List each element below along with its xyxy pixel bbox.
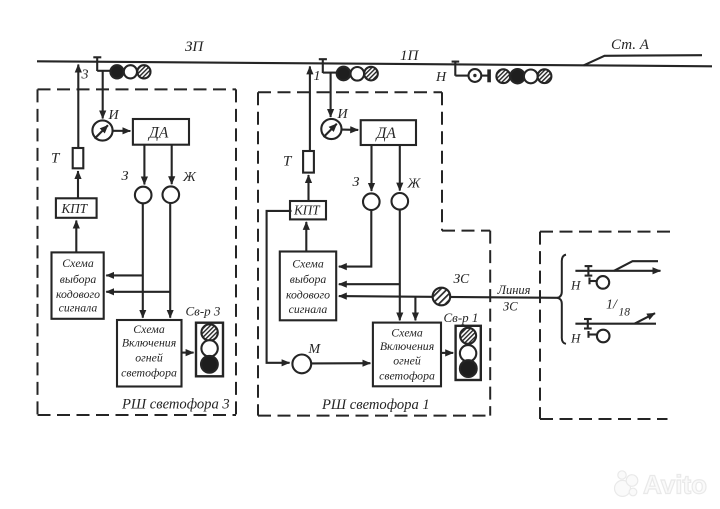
signal Н track 2: tick, link, lamp: [589, 330, 610, 343]
wire: arrow up from T line to track at signal 1: [309, 66, 311, 151]
node 1П label: [400, 48, 420, 64]
svg-text:Т: Т: [283, 154, 293, 170]
svg-text:кодового: кодового: [56, 287, 100, 301]
svg-text:КПТ: КПТ: [293, 203, 321, 218]
node label И: [108, 108, 120, 123]
node label Н (track 1): [570, 278, 581, 293]
dashed cabinet box РШ светофора 1: [258, 92, 490, 415]
node label Т: [51, 151, 61, 167]
relay З: [363, 193, 380, 210]
signal Н mast on track: [452, 61, 469, 76]
светофор 1 lamp white: [460, 345, 476, 361]
svg-text:огней: огней: [135, 351, 163, 365]
светофор 1 head box: [456, 326, 481, 380]
svg-text:18: 18: [619, 307, 631, 319]
signal 3 mast: [93, 57, 110, 71]
signal Н track 1: tick, link, lamp: [590, 276, 610, 289]
signal Н lamp black: [510, 69, 524, 83]
wire: signal 3 mast down to instrument И: [102, 71, 104, 119]
svg-text:Ж: Ж: [182, 170, 197, 185]
node label З: [122, 169, 129, 184]
signal Н lamp hatched 1: [496, 69, 510, 83]
node label З: [353, 175, 360, 190]
wire: lights box to светофор 1 head: [441, 352, 453, 354]
box: схема выбора кодового сигнала (3): [52, 252, 104, 318]
wire: relay З into choose box: [339, 210, 372, 267]
svg-text:Н: Н: [570, 331, 581, 346]
signal Н lamp white: [524, 70, 538, 84]
wire: relay З down into lights box: [142, 203, 144, 317]
wire: station track 2: [575, 323, 656, 325]
relay Ж: [163, 186, 180, 203]
svg-text:ЗС: ЗС: [454, 271, 471, 286]
relay Ж: [392, 193, 409, 210]
wire: ЗС line into choose box: [339, 296, 558, 298]
node label Н (entrance signal): [435, 70, 447, 85]
dashed cabinet box РШ светофора 3: [38, 89, 237, 415]
svg-text:сигнала: сигнала: [289, 302, 328, 316]
svg-text:1: 1: [314, 69, 321, 84]
relay М: [292, 355, 311, 374]
wire: station track 1: [575, 270, 660, 272]
wire: branch З into choose box: [106, 274, 143, 276]
svg-text:Схема: Схема: [292, 257, 324, 271]
station track 1 mast: [585, 265, 593, 276]
signal Н route indicator circle with dot: [469, 69, 482, 82]
box КПТ (code transmitter): [290, 201, 326, 219]
wire: КПТ up to resistor Т: [307, 175, 309, 201]
box: схема выбора кодового сигнала (1): [280, 252, 336, 321]
node label 1/18 turnout: [606, 298, 630, 319]
node Ст. А label: [611, 37, 650, 53]
node label М: [308, 342, 322, 357]
decoder box ДА U1: [133, 119, 189, 145]
wire: branch Ж into choose box: [106, 291, 170, 293]
svg-text:З: З: [353, 175, 360, 190]
signal 3 lamp hatched: [137, 65, 150, 78]
signal 3 lamp white: [124, 65, 137, 78]
svg-text:Включения: Включения: [380, 339, 434, 353]
svg-text:Т: Т: [51, 151, 61, 167]
wire: relay Ж down into lights box: [399, 210, 401, 321]
svg-text:Св-р 3: Св-р 3: [186, 304, 221, 319]
svg-text:М: М: [308, 342, 322, 357]
instrument И (signal 1): [321, 119, 341, 139]
wire: И to ДА arrow: [113, 130, 131, 132]
светофор 1 lamp hatched: [460, 328, 476, 344]
svg-text:Схема: Схема: [62, 256, 94, 270]
node label РШ светофора 1: [321, 397, 430, 413]
signal Н stage bar: [487, 69, 491, 82]
box: схема включения огней светофора (1): [373, 323, 441, 387]
wire: М to lights box: [311, 362, 370, 364]
decoder box ДА U2: [361, 120, 416, 145]
svg-text:З: З: [122, 169, 129, 184]
signal 1 mast: [319, 59, 337, 74]
svg-text:выбора: выбора: [60, 272, 97, 286]
svg-text:И: И: [108, 108, 120, 123]
svg-text:1/: 1/: [606, 298, 618, 313]
signal 1 lamp white: [351, 67, 365, 81]
node label ЗС: [454, 271, 471, 286]
светофор 3 lamp black: [201, 356, 218, 373]
relay З: [135, 187, 152, 204]
node label И: [337, 107, 349, 122]
wire: track 1 turnout branch: [614, 261, 658, 271]
svg-text:огней: огней: [393, 354, 421, 368]
signal Н lamp hatched 2: [538, 69, 552, 83]
светофор 3 head box: [196, 323, 223, 377]
svg-text:светофора: светофора: [379, 369, 435, 383]
node label РШ светофора 3: [121, 397, 230, 413]
svg-text:Схема: Схема: [133, 322, 165, 336]
svg-text:1П: 1П: [400, 48, 420, 64]
node label Т: [283, 154, 293, 170]
wire: КПТ up to resistor Т: [77, 171, 79, 198]
box КПТ (code transmitter): [56, 198, 97, 218]
wire: branch from ЗС line into lights box: [414, 296, 416, 320]
node label 3 (signal number): [81, 68, 89, 83]
wire: arrow up from T line to track at signal 3: [77, 65, 79, 149]
wire: ДА down to relay З: [370, 145, 372, 191]
wire: branch track to station A: [584, 55, 703, 65]
svg-text:ДА: ДА: [375, 125, 397, 142]
svg-text:выбора: выбора: [290, 272, 327, 286]
wire: scheme box up to КПТ: [75, 221, 77, 253]
svg-text:Н: Н: [570, 278, 581, 293]
node label Ж: [182, 170, 197, 185]
signal 1 lamp hatched: [364, 67, 378, 81]
svg-text:Линия: Линия: [497, 283, 531, 297]
светофор 3 lamp hatched: [201, 324, 217, 340]
svg-text:И: И: [337, 107, 349, 122]
svg-text:Avito: Avito: [643, 470, 707, 500]
wire: short link in signal Н: [481, 75, 487, 77]
wire: ДА down to relay З: [143, 145, 145, 185]
wire: track line ЗП/1П: [37, 61, 712, 66]
wire: track 2 exit branch with arrow: [635, 313, 656, 324]
station track 2 mast: [584, 318, 592, 329]
светофор 3 lamp white: [201, 340, 217, 356]
wire: lights box to светофор 3 head: [182, 352, 194, 354]
wire: scheme box up to КПТ: [305, 222, 307, 252]
node label 1 (signal number): [314, 69, 321, 84]
svg-text:ЗС: ЗС: [503, 300, 518, 314]
signal 1 lamp red (filled): [337, 67, 351, 81]
node label Св-р 3: [186, 304, 221, 319]
svg-text:светофора: светофора: [121, 366, 177, 380]
svg-text:Ст. А: Ст. А: [611, 37, 650, 53]
wire: signal 1 mast down to instrument И: [330, 73, 332, 117]
node label Ж: [407, 177, 422, 192]
box: схема включения огней светофора (3): [117, 320, 182, 387]
wire: КПТ left to М relay path: [267, 211, 292, 363]
svg-text:3: 3: [81, 68, 89, 83]
wire: relay Ж down into lights box: [169, 203, 171, 318]
resistor Т (transformer): [303, 151, 314, 173]
instrument И (signal 3): [92, 120, 112, 140]
watermark avito logo: [615, 470, 708, 500]
node ЗП label: [185, 39, 204, 55]
svg-text:РШ светофора 1: РШ светофора 1: [321, 397, 430, 413]
signal 3 lamp red (filled): [110, 65, 123, 78]
resistor Т (transformer): [73, 148, 84, 168]
svg-text:КПТ: КПТ: [61, 201, 89, 216]
svg-text:Св-р 1: Св-р 1: [444, 310, 479, 325]
wire: ДА down to relay Ж: [171, 145, 173, 185]
svg-text:сигнала: сигнала: [59, 301, 98, 315]
svg-text:кодового: кодового: [286, 288, 330, 302]
svg-text:Включения: Включения: [122, 336, 176, 350]
brace joining station tracks: [557, 255, 566, 344]
wire: И to ДА arrow: [342, 129, 359, 131]
wire: ДА down to relay Ж: [399, 145, 401, 191]
node label Линия ЗС: [497, 283, 531, 314]
node label Св-р 1: [444, 310, 479, 325]
svg-text:Н: Н: [435, 70, 447, 85]
светофор 1 lamp black: [460, 360, 477, 377]
svg-text:ДА: ДА: [147, 125, 169, 142]
wire: branch Ж into choose box: [339, 283, 400, 285]
svg-text:ЗП: ЗП: [185, 39, 204, 55]
dashed station relay box: [540, 232, 674, 419]
node label Н (track 2): [570, 331, 581, 346]
svg-text:Ж: Ж: [407, 177, 422, 192]
svg-text:РШ светофора 3: РШ светофора 3: [121, 397, 230, 413]
relay ЗС (hatched): [433, 288, 451, 306]
svg-text:Схема: Схема: [391, 326, 423, 340]
